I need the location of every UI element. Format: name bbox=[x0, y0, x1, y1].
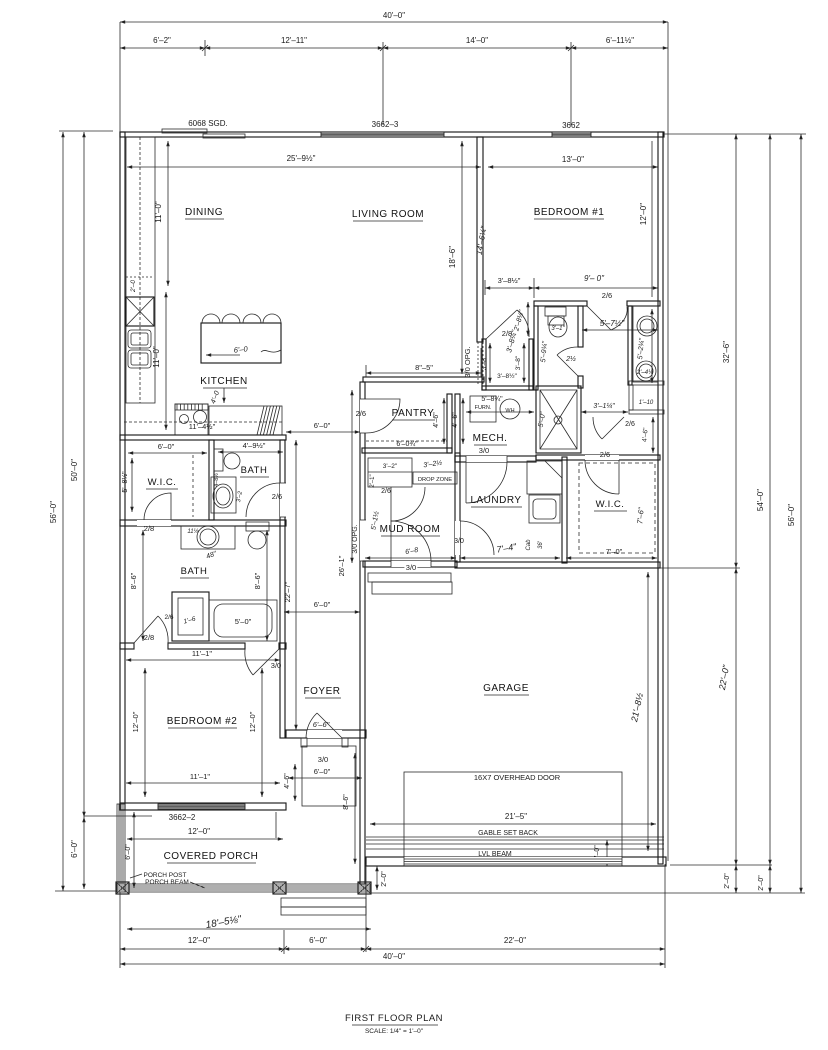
svg-text:2/6: 2/6 bbox=[272, 492, 282, 501]
svg-text:2/8: 2/8 bbox=[502, 329, 512, 338]
svg-text:25'–9½": 25'–9½" bbox=[287, 154, 316, 163]
svg-text:FURN.: FURN. bbox=[475, 405, 492, 411]
svg-text:2/6: 2/6 bbox=[356, 409, 366, 418]
svg-text:DINING: DINING bbox=[185, 207, 223, 218]
svg-text:12'–0": 12'–0" bbox=[188, 827, 210, 836]
svg-text:4–8½: 4–8½ bbox=[213, 473, 220, 487]
svg-text:21'–5": 21'–5" bbox=[505, 812, 527, 821]
svg-text:5'–8¾": 5'–8¾" bbox=[481, 396, 503, 403]
svg-text:3'–8": 3'–8" bbox=[515, 355, 522, 370]
svg-text:SCALE: 1/4" = 1'–0": SCALE: 1/4" = 1'–0" bbox=[365, 1028, 424, 1035]
svg-text:3/0: 3/0 bbox=[406, 563, 416, 572]
svg-text:3662–2: 3662–2 bbox=[169, 813, 196, 822]
svg-text:7'–6": 7'–6" bbox=[635, 507, 645, 525]
svg-text:6'–6": 6'–6" bbox=[313, 720, 330, 729]
svg-text:26'–1": 26'–1" bbox=[337, 555, 346, 576]
svg-text:8'–6": 8'–6" bbox=[253, 572, 262, 589]
svg-text:3/0: 3/0 bbox=[479, 446, 489, 455]
svg-text:11⅛: 11⅛ bbox=[187, 529, 198, 535]
svg-text:11'–1": 11'–1" bbox=[192, 649, 213, 658]
svg-text:3662–3: 3662–3 bbox=[372, 120, 399, 129]
svg-text:3/0: 3/0 bbox=[454, 538, 464, 545]
svg-text:6'–0": 6'–0" bbox=[125, 844, 132, 860]
svg-text:2/6: 2/6 bbox=[381, 488, 391, 495]
svg-text:2/8: 2/8 bbox=[144, 633, 154, 642]
svg-text:4'–6": 4'–6" bbox=[284, 773, 291, 789]
svg-text:6'–0": 6'–0" bbox=[314, 767, 331, 776]
svg-text:40'–0": 40'–0" bbox=[383, 952, 405, 961]
svg-text:W.I.C.: W.I.C. bbox=[148, 477, 177, 488]
svg-text:14'–0": 14'–0" bbox=[466, 36, 488, 45]
svg-text:12'–0": 12'–0" bbox=[131, 711, 140, 732]
svg-text:3'–8½": 3'–8½" bbox=[497, 372, 518, 380]
svg-text:6'–11½": 6'–11½" bbox=[606, 36, 634, 45]
svg-text:3/0 OPG.: 3/0 OPG. bbox=[352, 524, 359, 553]
svg-text:2/8: 2/8 bbox=[144, 524, 154, 533]
svg-text:6'–0": 6'–0" bbox=[309, 936, 327, 945]
svg-text:BEDROOM #2: BEDROOM #2 bbox=[167, 716, 238, 727]
svg-text:KITCHEN: KITCHEN bbox=[200, 376, 247, 387]
svg-text:4'–6": 4'–6" bbox=[452, 412, 459, 428]
svg-text:2'–0": 2'–0" bbox=[758, 875, 765, 891]
svg-text:2'–4¼: 2'–4¼ bbox=[636, 370, 653, 376]
svg-text:COVERED PORCH: COVERED PORCH bbox=[164, 851, 259, 862]
svg-text:BEDROOM #1: BEDROOM #1 bbox=[534, 207, 605, 218]
svg-text:FOYER: FOYER bbox=[304, 686, 341, 697]
svg-text:6'–0¾": 6'–0¾" bbox=[396, 441, 418, 448]
svg-text:6'–2": 6'–2" bbox=[153, 36, 171, 45]
svg-text:FIRST FLOOR PLAN: FIRST FLOOR PLAN bbox=[345, 1013, 443, 1024]
svg-text:22'–0": 22'–0" bbox=[504, 936, 526, 945]
svg-text:7'–0": 7'–0" bbox=[606, 547, 623, 556]
svg-text:9'– 0": 9'– 0" bbox=[584, 274, 605, 283]
svg-text:2/6: 2/6 bbox=[602, 291, 612, 300]
svg-text:40'–0": 40'–0" bbox=[383, 11, 405, 20]
svg-text:3'–8": 3'–8" bbox=[481, 355, 488, 370]
svg-text:56'–0": 56'–0" bbox=[49, 501, 58, 523]
svg-text:6'–0": 6'–0" bbox=[314, 421, 331, 430]
svg-text:BATH: BATH bbox=[241, 465, 268, 476]
svg-text:11'–0": 11'–0" bbox=[152, 346, 161, 368]
svg-text:22'–7": 22'–7" bbox=[283, 581, 292, 602]
svg-text:5'–0": 5'–0" bbox=[235, 617, 252, 626]
svg-text:5'–7½": 5'–7½" bbox=[600, 319, 626, 328]
svg-text:8"–5": 8"–5" bbox=[415, 363, 433, 372]
svg-text:W.I.C.: W.I.C. bbox=[596, 499, 625, 510]
svg-text:12'–0": 12'–0" bbox=[248, 711, 257, 732]
svg-text:PORCH POST: PORCH POST bbox=[144, 872, 187, 879]
svg-text:6'–0: 6'–0 bbox=[233, 344, 249, 354]
svg-text:2½: 2½ bbox=[565, 355, 576, 363]
svg-text:2'–0: 2'–0 bbox=[130, 280, 137, 293]
svg-text:2/6: 2/6 bbox=[600, 450, 610, 459]
svg-text:3'–1": 3'–1" bbox=[551, 326, 565, 332]
svg-text:MUD ROOM: MUD ROOM bbox=[380, 524, 441, 535]
svg-text:3'–8½": 3'–8½" bbox=[498, 276, 521, 285]
svg-text:6'–0": 6'–0" bbox=[158, 442, 175, 451]
svg-text:12'–11": 12'–11" bbox=[281, 36, 307, 45]
svg-text:4'–6": 4'–6" bbox=[433, 412, 440, 428]
svg-text:56'–0": 56'–0" bbox=[787, 504, 796, 526]
svg-text:12'–0": 12'–0" bbox=[188, 936, 210, 945]
svg-text:8'–6": 8'–6" bbox=[129, 572, 138, 589]
svg-text:DROP ZONE: DROP ZONE bbox=[418, 477, 452, 483]
svg-text:3/0: 3/0 bbox=[318, 755, 328, 764]
svg-text:6'–0": 6'–0" bbox=[70, 840, 79, 858]
svg-text:16X7 OVERHEAD DOOR: 16X7 OVERHEAD DOOR bbox=[474, 773, 561, 782]
svg-text:1'–10: 1'–10 bbox=[639, 400, 654, 406]
svg-text:2'–1": 2'–1" bbox=[370, 474, 376, 487]
svg-text:4'–9½": 4'–9½" bbox=[243, 441, 266, 450]
svg-text:2/6: 2/6 bbox=[164, 614, 173, 621]
svg-text:50'–0": 50'–0" bbox=[70, 459, 79, 481]
svg-text:3'–2": 3'–2" bbox=[383, 463, 398, 470]
svg-text:11'–4½": 11'–4½" bbox=[189, 422, 216, 431]
svg-text:3/0: 3/0 bbox=[271, 661, 281, 670]
svg-text:13'–0": 13'–0" bbox=[562, 155, 584, 164]
svg-text:6068 SGD.: 6068 SGD. bbox=[188, 119, 228, 128]
svg-text:PANTRY: PANTRY bbox=[392, 408, 435, 419]
svg-text:54'–0": 54'–0" bbox=[756, 489, 765, 511]
svg-text:LIVING ROOM: LIVING ROOM bbox=[352, 209, 424, 220]
svg-text:BATH: BATH bbox=[181, 566, 208, 577]
svg-text:12'–0": 12'–0" bbox=[639, 203, 648, 225]
svg-text:2'–0": 2'–0" bbox=[381, 871, 388, 887]
svg-text:LVL BEAM: LVL BEAM bbox=[478, 851, 512, 858]
svg-text:18'–6": 18'–6" bbox=[448, 246, 457, 268]
svg-text:WH: WH bbox=[505, 408, 514, 414]
svg-text:GARAGE: GARAGE bbox=[483, 683, 529, 694]
svg-text:3'–1¼": 3'–1¼" bbox=[593, 403, 615, 410]
svg-text:PORCH BEAM: PORCH BEAM bbox=[145, 879, 189, 886]
svg-text:MECH.: MECH. bbox=[473, 433, 508, 444]
svg-text:5'–8½": 5'–8½" bbox=[121, 471, 129, 493]
svg-text:Cab: Cab bbox=[526, 539, 532, 551]
svg-text:LAUNDRY: LAUNDRY bbox=[470, 495, 521, 506]
svg-text:2'–0": 2'–0" bbox=[724, 873, 731, 889]
svg-text:11'–1": 11'–1" bbox=[190, 772, 211, 781]
svg-text:36′: 36′ bbox=[538, 540, 544, 549]
svg-text:4'–6": 4'–6" bbox=[641, 427, 649, 443]
svg-text:6'–0": 6'–0" bbox=[314, 600, 331, 609]
svg-text:GABLE SET BACK: GABLE SET BACK bbox=[478, 830, 538, 837]
svg-text:2/6: 2/6 bbox=[625, 421, 635, 428]
svg-text:8'–6": 8'–6" bbox=[343, 794, 350, 810]
svg-text:32'–6": 32'–6" bbox=[722, 341, 731, 363]
